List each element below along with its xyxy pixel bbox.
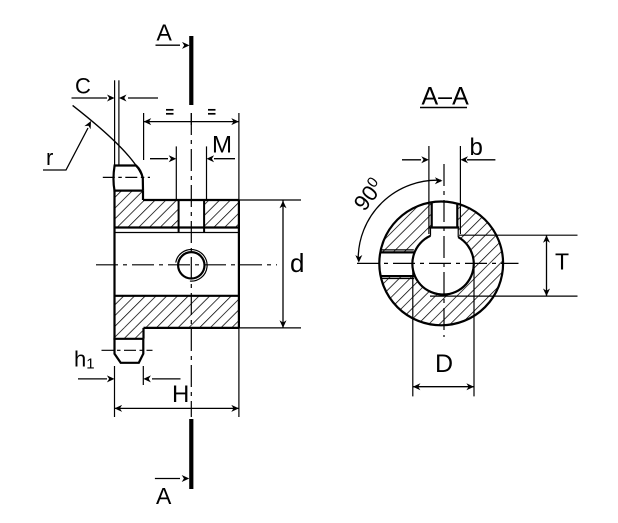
b dimension extension lines xyxy=(428,146,430,234)
svg-text:C: C xyxy=(75,74,91,99)
svg-text:M: M xyxy=(212,132,232,159)
M slot right wall xyxy=(203,200,205,233)
bottom tooth profile xyxy=(115,339,144,363)
A-A title underline xyxy=(420,107,467,109)
rim top edge xyxy=(143,199,239,201)
screw hole thread lines in section xyxy=(380,249,414,251)
M dimension arrows xyxy=(150,155,235,162)
keyway bottom xyxy=(430,226,460,228)
C dimension extension lines xyxy=(114,80,116,165)
equal sign left xyxy=(166,110,174,114)
hatching top rim band xyxy=(115,191,144,228)
svg-text:A: A xyxy=(156,483,172,509)
h1 right extension line xyxy=(142,366,144,385)
H dimension arrow line xyxy=(115,405,239,412)
section line A top xyxy=(189,36,193,105)
vertical centerline left view xyxy=(190,113,192,417)
b dimension arrows xyxy=(402,156,495,163)
section line A bottom xyxy=(189,419,193,489)
hatching bottom rim band xyxy=(115,296,239,328)
body outline right face xyxy=(238,200,240,328)
D dimension extension lines xyxy=(412,263,414,396)
bore circle with keyway opening xyxy=(412,236,473,295)
T dimension extension lines xyxy=(459,234,578,236)
tooth root line bottom xyxy=(113,338,143,340)
pitch line bottom tooth xyxy=(102,349,153,351)
tooth step bottom xyxy=(142,328,144,339)
M dimension extension lines xyxy=(175,146,177,199)
pitch line top tooth xyxy=(103,176,150,178)
screw hole bold walls in section xyxy=(380,251,414,253)
equal sign right xyxy=(208,110,216,114)
h1 dimension arrows xyxy=(78,375,181,382)
svg-text:T: T xyxy=(555,249,569,275)
D dimension arrow line xyxy=(413,383,474,390)
bore top line xyxy=(115,232,239,234)
top tooth profile xyxy=(113,166,143,191)
vertical centerline A-A xyxy=(443,164,445,337)
hatched section of hub xyxy=(375,195,507,328)
svg-text:r: r xyxy=(46,145,53,170)
set screw hole thread arc xyxy=(176,250,207,282)
d dimension arrow line xyxy=(280,200,287,328)
rim bottom edge xyxy=(144,327,239,329)
C dimension arrows xyxy=(72,95,159,102)
keyway corner stub right xyxy=(457,228,459,238)
tooth flank radius curve xyxy=(73,105,143,178)
T dimension arrow line xyxy=(543,235,550,296)
bore bottom line xyxy=(115,295,239,297)
d dimension extension lines xyxy=(239,199,301,201)
tooth root line top xyxy=(113,190,143,192)
body outline left face xyxy=(113,191,115,339)
svg-text:A–A: A–A xyxy=(422,83,470,111)
equal-spacing dimension line xyxy=(144,113,239,125)
equal-spacing left extension line xyxy=(143,113,145,160)
keyway bottom line xyxy=(115,226,239,228)
keyway corner stub left xyxy=(430,228,432,236)
90 degree arc xyxy=(355,177,442,262)
set screw hole bold circle xyxy=(178,252,204,278)
r leader arrow xyxy=(43,121,91,170)
right face extension line full xyxy=(238,113,240,417)
H dimension left extension line xyxy=(114,366,116,417)
svg-text:d: d xyxy=(290,248,304,278)
svg-text:A: A xyxy=(157,20,173,46)
horizontal centerline A-A xyxy=(357,262,519,264)
keyway right wall xyxy=(456,204,458,228)
svg-text:D: D xyxy=(435,350,453,378)
keyway left wall xyxy=(431,202,433,227)
svg-text:H: H xyxy=(172,381,189,408)
arrow A bottom xyxy=(155,475,189,482)
M slot left wall xyxy=(178,200,180,233)
outer circle xyxy=(379,202,503,326)
tooth step top xyxy=(142,191,144,200)
arrow A top xyxy=(156,42,190,49)
svg-text:b: b xyxy=(470,134,483,161)
horizontal centerline left view xyxy=(96,264,277,266)
